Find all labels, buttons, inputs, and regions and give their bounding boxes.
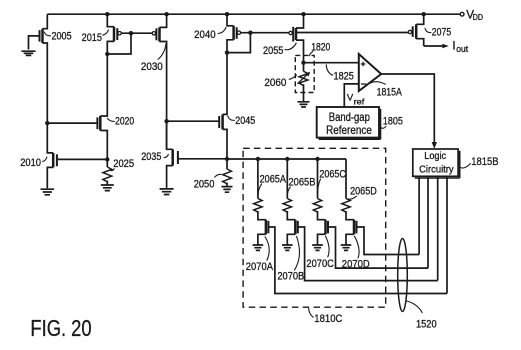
svg-text:out: out xyxy=(456,44,468,54)
transistor 2075 xyxy=(408,14,423,46)
leader 1805 xyxy=(380,126,386,128)
svg-text:2065C: 2065C xyxy=(319,169,345,181)
leader 2065A xyxy=(258,184,262,197)
transistor 2070C xyxy=(318,211,429,268)
wire to 2050 xyxy=(226,159,228,169)
leader 2070C xyxy=(325,236,329,257)
resistor 2065B xyxy=(283,199,291,213)
leader 1810C xyxy=(309,308,314,318)
block 1805 Band-gap Reference xyxy=(317,107,381,139)
svg-text:Reference: Reference xyxy=(326,124,372,137)
leader 1815A xyxy=(370,82,386,85)
svg-text:Band-gap: Band-gap xyxy=(329,111,370,124)
wire op-amp + input xyxy=(304,62,359,64)
ground below 2025 xyxy=(101,185,114,191)
svg-text:2005: 2005 xyxy=(52,30,72,42)
svg-text:I: I xyxy=(452,40,455,53)
leader 2045 xyxy=(228,116,235,121)
junction on VDD rail x=166.6 xyxy=(164,12,168,16)
leader 1815B xyxy=(460,163,471,168)
svg-text:2025: 2025 xyxy=(113,158,134,170)
junction on VDD rail x=423.7 xyxy=(422,12,426,16)
svg-text:2035: 2035 xyxy=(141,151,161,163)
wire op-amp output to logic xyxy=(381,74,434,143)
junction 2045/2035/2050 node xyxy=(225,157,229,161)
junction branch x=257.9 xyxy=(256,157,260,161)
svg-text:2070A: 2070A xyxy=(246,261,274,273)
svg-text:2030: 2030 xyxy=(141,61,163,73)
resistor 2065C xyxy=(313,199,321,213)
op-amp 1815A xyxy=(359,54,381,91)
resistor 2065A xyxy=(254,199,262,213)
wires logic circuitry to gates xyxy=(418,177,420,255)
leader 2070A xyxy=(265,237,269,261)
leader 2025 xyxy=(110,168,115,170)
transistor 2070D xyxy=(346,211,419,255)
ground at 2035 source xyxy=(160,189,174,195)
leader 2050 xyxy=(214,174,221,177)
transistor 2005 xyxy=(29,14,48,123)
resistor 2065D xyxy=(342,199,350,213)
svg-text:2010: 2010 xyxy=(20,157,41,169)
wire Iout arrow xyxy=(424,45,444,47)
ellipse 1520 wire bundle xyxy=(398,239,408,312)
leader 2035 xyxy=(164,154,169,158)
transistor 2045 xyxy=(167,53,227,159)
leader 2065B xyxy=(287,187,290,197)
leader 2030 xyxy=(158,43,166,59)
ground at 2070D xyxy=(341,245,352,250)
dashed box 1810C xyxy=(243,148,386,307)
svg-text:1820: 1820 xyxy=(311,42,330,54)
wire 2015 gate-drain tie xyxy=(107,33,131,54)
svg-text:2050: 2050 xyxy=(194,179,215,191)
leader 1825 xyxy=(326,64,333,75)
leader 2005 xyxy=(44,32,51,36)
junction 2030/2035/2045 node xyxy=(164,119,168,123)
wire VDD rail xyxy=(47,13,460,15)
leader 2055 xyxy=(285,43,297,50)
resistor 2050 xyxy=(223,169,232,184)
svg-text:FIG. 20: FIG. 20 xyxy=(30,315,91,341)
wire to 2060 xyxy=(303,63,305,72)
leader 2070B xyxy=(294,236,299,271)
transistor 2040 xyxy=(227,14,289,52)
junction 2040 gate xyxy=(248,31,252,35)
leader 2020 xyxy=(107,118,115,122)
wire to 2065D xyxy=(345,159,347,199)
svg-text:2065B: 2065B xyxy=(289,177,316,189)
junction 2020/2010/2025 node xyxy=(105,157,109,161)
junction 2055/2060/op-amp node xyxy=(301,61,305,65)
svg-text:Logic: Logic xyxy=(424,151,446,162)
transistor 2020 xyxy=(47,54,107,159)
svg-text:2070C: 2070C xyxy=(306,258,334,270)
svg-text:1825: 1825 xyxy=(334,71,354,83)
leader 2015 xyxy=(102,30,108,36)
leader 2065C xyxy=(318,179,321,197)
wire to 2065C xyxy=(317,159,319,199)
transistor 2055 xyxy=(289,14,408,63)
junction 2015 source xyxy=(105,52,109,56)
svg-text:2070D: 2070D xyxy=(342,258,370,270)
ground at 2070B xyxy=(282,245,293,250)
wire to 2025 xyxy=(106,159,108,167)
leader 2065D xyxy=(347,196,356,199)
resistor 2025 xyxy=(103,167,112,182)
resistor 2060 (variable) xyxy=(299,71,308,85)
wire to 2065B xyxy=(286,159,288,199)
svg-text:2070B: 2070B xyxy=(277,271,304,283)
ground at 2070A xyxy=(253,245,264,250)
junction branch x=317.5 xyxy=(315,157,319,161)
junction on VDD rail x=107.3 xyxy=(105,12,109,16)
junction 2040 source xyxy=(225,50,229,54)
svg-text:2015: 2015 xyxy=(82,32,102,44)
svg-text:2065D: 2065D xyxy=(350,186,377,198)
junction 2015 gate xyxy=(129,31,133,35)
junction on VDD rail x=227 xyxy=(225,12,229,16)
ground at 2005 gate xyxy=(21,51,35,55)
leader 1820 xyxy=(309,51,313,56)
svg-text:1810C: 1810C xyxy=(314,313,342,325)
leader 2075 xyxy=(425,28,431,33)
wire to 2065A xyxy=(257,159,259,199)
wire op-amp - input to bandgap xyxy=(344,84,359,107)
svg-text:2055: 2055 xyxy=(263,45,283,57)
svg-text:1520: 1520 xyxy=(416,318,437,330)
leader 2040 xyxy=(218,27,226,33)
svg-text:DD: DD xyxy=(473,13,484,22)
junction branch x=287.3 xyxy=(285,157,289,161)
ground at 2010 source xyxy=(41,189,55,195)
svg-text:ref: ref xyxy=(354,97,366,106)
svg-text:2040: 2040 xyxy=(194,29,216,41)
svg-text:2060: 2060 xyxy=(264,77,286,89)
transistor 2070B xyxy=(287,211,437,281)
ground below 2060 xyxy=(298,102,310,107)
node VDD terminal xyxy=(460,12,464,16)
transistor 2070A xyxy=(258,211,447,294)
transistor 2030 xyxy=(152,14,166,149)
transistor 2035 xyxy=(167,121,227,188)
ground below 2050 xyxy=(222,187,233,193)
leader 2060 xyxy=(289,75,297,80)
leader 2010 xyxy=(42,157,47,162)
svg-text:2065A: 2065A xyxy=(260,174,287,186)
junction on VDD rail x=303.5 xyxy=(301,12,305,16)
svg-text:1815A: 1815A xyxy=(377,87,403,99)
svg-text:2020: 2020 xyxy=(115,115,134,127)
2060 arrow xyxy=(298,74,308,84)
svg-text:Circuitry: Circuitry xyxy=(419,165,454,176)
leader 1520 xyxy=(405,301,422,313)
wire 2065 branch bus xyxy=(227,158,346,160)
wire 2040 gate-drain tie xyxy=(227,33,250,53)
ground at 2070C xyxy=(312,245,323,250)
junction 2005/2010/2020 node xyxy=(45,121,49,125)
dashed box 1820 xyxy=(295,55,314,92)
block 1815B Logic Circuitry xyxy=(413,149,460,178)
leader 2070D xyxy=(354,236,359,258)
transistor 2010 xyxy=(47,123,107,188)
svg-text:1805: 1805 xyxy=(383,115,403,127)
transistor 2015 xyxy=(107,14,152,54)
svg-text:1815B: 1815B xyxy=(471,156,498,168)
svg-text:2075: 2075 xyxy=(432,26,451,38)
svg-text:2045: 2045 xyxy=(235,115,255,127)
